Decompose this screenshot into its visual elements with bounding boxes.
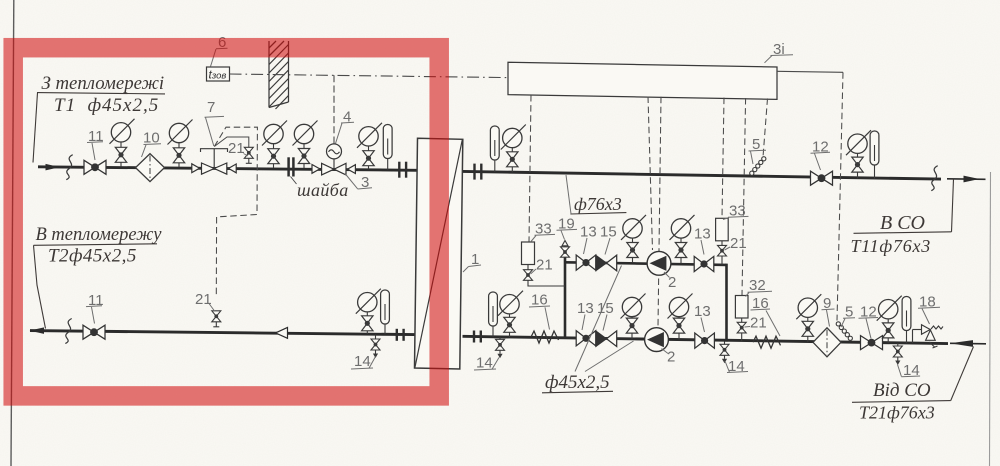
filter 10: [136, 154, 165, 182]
wall penetration hatched: [269, 41, 289, 109]
air valve 19 on riser: [564, 246, 566, 257]
svg-text:В тепломережу: В тепломережу: [36, 225, 163, 245]
gauge G6 valve: [362, 316, 373, 331]
gauge G4 valve: [298, 149, 309, 164]
unit 33 left: [522, 242, 535, 265]
unit 33 right: [716, 218, 729, 241]
gauge G1: [110, 119, 135, 144]
gauge G12 stem: [631, 317, 633, 340]
temperature sensor 5 top: [750, 157, 766, 176]
gauge G10: [621, 215, 646, 240]
gauge G15: [877, 296, 902, 321]
safety valve 18: [913, 325, 944, 348]
pipe break top-left: [66, 155, 72, 180]
impulse line from valve 7 to drop: [214, 127, 257, 295]
arrow outflow bottom-left: [30, 327, 45, 334]
thermometer T5: [489, 292, 498, 326]
flow arrow on return pipe: [276, 327, 288, 338]
impulse branch to valve 21: [214, 137, 249, 147]
svg-text:7: 7: [207, 99, 215, 116]
svg-text:шайба: шайба: [297, 180, 349, 200]
thermometer T1 stem: [387, 158, 389, 170]
impulse valve 21 at valve 7: [244, 147, 253, 163]
gauge G5 stem: [368, 146, 370, 170]
control valve 7 with reducers: [192, 149, 236, 175]
flow sensor 4: [327, 144, 342, 159]
gauge G9: [498, 291, 523, 316]
gauge G12: [621, 294, 646, 319]
gauge G3 valve: [268, 149, 279, 164]
svg-text:21: 21: [195, 291, 212, 308]
gauge G10 valve: [627, 243, 638, 258]
svg-text:Т1 ф45х2,5: Т1 ф45х2,5: [54, 95, 159, 116]
gauge G5 valve: [363, 151, 374, 166]
gauge G9 stem: [509, 314, 511, 338]
gauge G6: [356, 289, 381, 314]
svg-text:21: 21: [730, 235, 747, 252]
gauge G1 stem: [120, 142, 122, 167]
svg-text:В СО: В СО: [880, 212, 925, 234]
heat exchanger 1 diagonal: [415, 140, 462, 368]
thermometer T5 stem: [492, 325, 494, 337]
gauge G15 valve: [883, 323, 894, 338]
valve 21 under 33 right: [718, 245, 727, 250]
outflow stub top-right: [947, 178, 986, 181]
arrow outflow top-right: [964, 176, 980, 183]
controller drop to sensor 5 bottom: [837, 72, 843, 320]
pipe T11 to CO (top-right): [463, 171, 942, 179]
gauge G4 stem: [303, 143, 305, 169]
controller line right: [777, 71, 843, 72]
svg-text:13: 13: [694, 226, 711, 243]
pipe T21 from CO (bottom-right): [463, 336, 949, 343]
gauge G5: [357, 123, 382, 148]
svg-text:Т21ф76х3: Т21ф76х3: [859, 403, 935, 423]
temperature sensor 5 bottom: [836, 322, 852, 341]
filter 9: [813, 328, 841, 357]
controller drop to unit 33 left: [529, 95, 531, 242]
unit 32: [735, 296, 748, 319]
svg-text:tзов: tзов: [209, 68, 227, 82]
gauge G11: [670, 215, 695, 240]
valve 21 under 33 left: [524, 270, 533, 275]
svg-text:Т2ф45х2,5: Т2ф45х2,5: [48, 246, 137, 267]
flexible insert 16 left: [531, 331, 559, 343]
flexible insert 16 right: [753, 336, 781, 348]
gauge G10 stem: [632, 238, 634, 263]
valve 12 top: [811, 171, 833, 185]
flange pair before HX bottom: [397, 329, 404, 341]
drain valve 14 at right riser: [724, 342, 726, 345]
gauge G15 stem: [887, 319, 889, 344]
gauge G14: [796, 294, 821, 319]
thermometer T2: [381, 290, 390, 324]
inflow stub bottom-right: [950, 342, 986, 345]
page frame border right: [990, 172, 991, 466]
outdoor sensor box tzov: [207, 67, 230, 81]
svg-text:21: 21: [536, 257, 553, 274]
dash-dot sensor bus tzov to controller: [230, 74, 509, 78]
valve 11 top: [84, 160, 106, 174]
pump 2 lower: [645, 328, 669, 352]
svg-text:2: 2: [667, 349, 675, 366]
thermometer T4 stem: [874, 163, 876, 179]
svg-text:ф76х3: ф76х3: [574, 194, 622, 214]
flange pair after HX top: [475, 164, 482, 180]
gauge G13 valve: [673, 318, 684, 333]
drain valve 14 bottom right: [897, 343, 899, 346]
gauge G7 valve: [507, 152, 518, 167]
gauge G8: [846, 130, 871, 155]
controller drop to sensor 5 top: [763, 98, 768, 157]
gauge G7 stem: [511, 148, 513, 173]
svg-text:15: 15: [600, 224, 617, 241]
pipe break bottom-left: [65, 319, 71, 344]
sensor 4 drop line: [333, 75, 335, 144]
gauge G9 valve: [504, 317, 515, 332]
pipe break top-right: [931, 166, 937, 191]
svg-text:ф45х2,5: ф45х2,5: [545, 372, 610, 393]
gauge G1 valve: [115, 147, 126, 162]
thermometer T6: [902, 297, 911, 331]
svg-text:21: 21: [228, 140, 245, 157]
arrow inflow top-left: [46, 164, 61, 171]
pipe T2 return to network (bottom-left): [30, 331, 415, 335]
svg-text:Від СО: Від СО: [873, 380, 931, 401]
right riser of pump group: [725, 264, 728, 342]
controller drop to upper pump: [648, 97, 653, 251]
thermometer T3: [490, 126, 499, 160]
svg-text:13: 13: [577, 300, 594, 317]
gauge G2: [168, 120, 193, 145]
svg-text:14: 14: [354, 353, 371, 370]
valve 12 bottom: [861, 336, 883, 350]
drain valve 14 left: [371, 339, 380, 358]
gauge G12 valve: [626, 318, 637, 333]
page frame border left: [11, 0, 14, 466]
gauge G11 stem: [680, 238, 682, 263]
controller drop to unit 33 right: [722, 98, 724, 218]
heat exchanger 1 body: [415, 138, 463, 369]
thermometer T6 stem: [906, 328, 908, 343]
drain valve 14 left stem: [375, 334, 377, 339]
gauge G13: [668, 294, 693, 319]
svg-text:13: 13: [694, 303, 711, 320]
thermometer T1: [383, 125, 392, 159]
pipe T1 supply from network (top-left): [38, 167, 418, 171]
highlight marker rectangle: [13, 48, 439, 396]
svg-text:13: 13: [580, 224, 597, 241]
valve 11 bottom: [83, 325, 105, 339]
check valve 15 lower: [596, 331, 617, 347]
orifice plate shajba: [287, 157, 290, 176]
gauge G8 stem: [857, 154, 859, 179]
thermometer T2 stem: [384, 324, 386, 335]
pump bypass upper branch: [565, 262, 727, 265]
gauge G2 valve: [173, 148, 184, 163]
gauge G3 stem: [273, 144, 275, 168]
valve 3 with reducers and sensor 4: [312, 159, 355, 175]
gauge G14 valve: [802, 321, 813, 336]
valve 13 upper left: [576, 255, 596, 270]
controller drop to unit 32: [742, 98, 746, 295]
gauge G8 valve: [852, 157, 863, 172]
flange pair before HX top: [399, 162, 406, 178]
svg-text:21: 21: [750, 315, 767, 332]
controller drop to lower pump: [658, 97, 661, 327]
gauge G13 stem: [678, 317, 680, 340]
thermometer T3 stem: [494, 153, 496, 172]
impulse valve 21 on return: [212, 311, 221, 327]
gauge G14 stem: [807, 317, 809, 342]
controller box 3i: [508, 62, 777, 99]
thermometer T4: [870, 131, 879, 165]
gauge G3: [262, 121, 287, 146]
svg-text:Т11ф76х3: Т11ф76х3: [851, 236, 931, 256]
flange pair after HX bottom: [474, 331, 481, 343]
valve 21 under 32: [737, 322, 746, 327]
gauge G11 valve: [675, 243, 686, 258]
gauge G6 stem: [366, 312, 368, 334]
svg-text:З тепломережі: З тепломережі: [42, 73, 165, 94]
check valve 15 upper: [596, 255, 617, 271]
valve 13 upper right: [694, 256, 714, 271]
valve 13 lower left: [576, 331, 596, 346]
drain valve 14 right of HX: [499, 337, 501, 339]
impulse link 33 left to riser: [528, 280, 565, 286]
arrow inflow bottom-right: [950, 340, 973, 347]
left riser of pump group: [564, 257, 567, 339]
valve 13 lower right: [695, 333, 715, 348]
gauge G7: [501, 125, 526, 150]
gauge G2 stem: [178, 143, 180, 168]
gauge G4: [293, 121, 318, 146]
pump 2 upper: [647, 251, 671, 275]
